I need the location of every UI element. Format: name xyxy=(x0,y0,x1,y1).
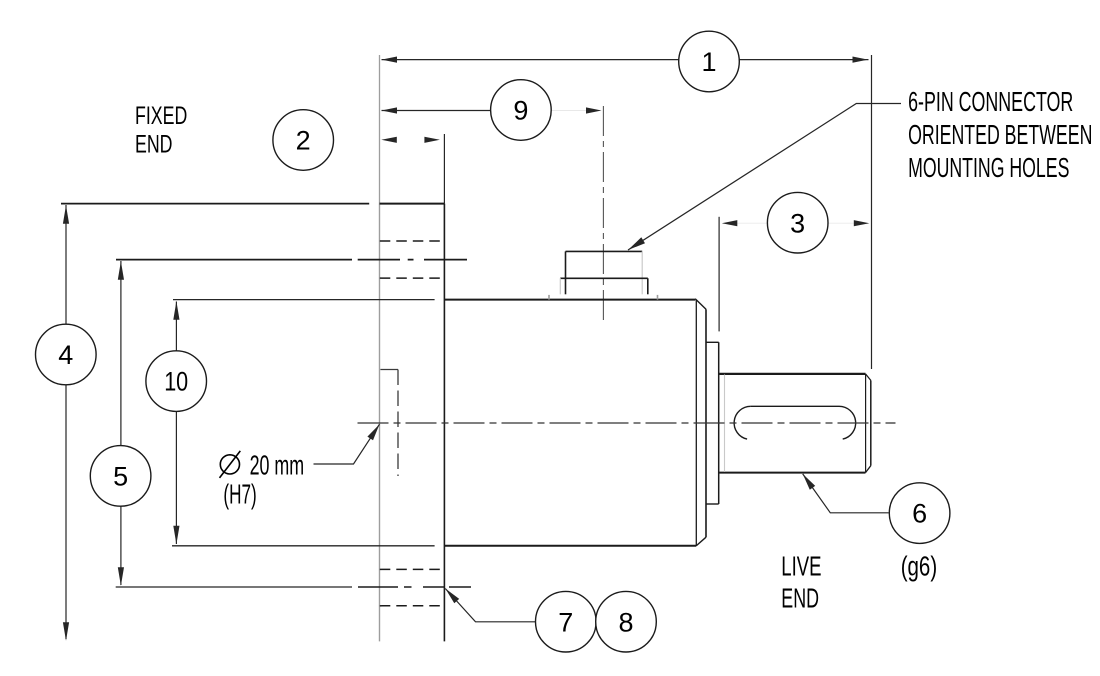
body top edge xyxy=(444,299,695,301)
boss top edge xyxy=(706,341,719,343)
body top extension line (dim 10) xyxy=(173,299,435,301)
dim 9 line left segment xyxy=(382,110,491,112)
balloon 4 xyxy=(36,324,97,385)
dim 1 left arrowhead xyxy=(382,57,398,63)
bore leader arrowhead xyxy=(367,424,379,440)
dim 9 left arrowhead xyxy=(382,107,398,113)
dim 4 line upper segment xyxy=(65,205,67,324)
dim 10 top arrowhead xyxy=(173,301,179,320)
connector lower tier right edge xyxy=(647,278,649,294)
body right face xyxy=(705,309,707,537)
boss right face xyxy=(718,342,720,504)
connector leader arrowhead xyxy=(628,237,645,250)
svg-text:2: 2 xyxy=(296,126,311,156)
svg-text:5: 5 xyxy=(113,462,128,492)
balloon 6 leader arrowhead xyxy=(803,474,816,490)
body bottom extension line (dim 10) xyxy=(172,545,435,547)
svg-text:20 mm: 20 mm xyxy=(250,449,305,480)
dim 4 line lower segment xyxy=(65,385,67,639)
svg-text:END: END xyxy=(135,131,173,159)
connector centerline (vertical dash-dot) xyxy=(602,106,604,323)
svg-text:ORIENTED BETWEEN: ORIENTED BETWEEN xyxy=(908,119,1092,150)
top mounting hole hidden line upper xyxy=(380,240,440,242)
dim 4 bottom arrowhead xyxy=(63,622,69,641)
dim 1 line right segment xyxy=(739,59,868,61)
left extension line for dim 3 xyxy=(718,217,720,332)
dim 9 faint right segment xyxy=(551,110,600,112)
diameter symbol xyxy=(220,451,241,478)
keyway right end arc xyxy=(839,406,856,439)
dim 5 line lower segment xyxy=(120,506,122,586)
svg-text:8: 8 xyxy=(618,607,633,637)
svg-text:7: 7 xyxy=(558,607,573,637)
shaft end top chamfer xyxy=(866,374,871,381)
dim 1 right arrowhead xyxy=(853,57,869,63)
dim 5 top extension line xyxy=(116,259,352,261)
svg-text:LIVE: LIVE xyxy=(781,551,821,582)
dim 5 bottom arrowhead xyxy=(118,567,124,586)
shaft end chamfer ring line xyxy=(865,375,867,472)
connector top tier right edge (light) xyxy=(641,251,643,294)
dim 10 line upper segment xyxy=(175,302,177,352)
bottom mounting hole hidden line upper xyxy=(380,568,440,570)
bottom mounting hole centerline xyxy=(358,586,471,588)
main horizontal centerline xyxy=(358,422,896,424)
balloon 5 xyxy=(90,446,151,507)
svg-text:4: 4 xyxy=(58,340,73,370)
dim 1 line left segment xyxy=(382,59,679,61)
balloon 9 xyxy=(491,80,552,141)
balloon 10 xyxy=(146,351,207,412)
svg-text:(H7): (H7) xyxy=(223,478,256,509)
balloon 6 leader line xyxy=(803,474,889,513)
shaft end face xyxy=(870,380,872,465)
balloon 3 xyxy=(767,192,828,253)
right extension line for dims 1 and 3 xyxy=(871,55,873,369)
dim 3 right arrowhead xyxy=(854,220,870,226)
flange left edge (gray) xyxy=(379,204,381,642)
body bottom edge xyxy=(444,545,696,547)
connector leader line xyxy=(628,104,901,251)
dim 3 faint line xyxy=(723,222,868,224)
shaft bottom edge xyxy=(719,472,865,474)
dim 10 line lower segment xyxy=(175,411,177,544)
connector lower tier left edge (light) xyxy=(559,278,561,294)
flange right edge xyxy=(443,204,445,642)
connector base tick right (light) xyxy=(657,295,659,300)
body right top chamfer xyxy=(695,299,706,309)
boss bottom edge xyxy=(706,503,719,505)
top mounting hole centerline xyxy=(358,259,467,261)
connector base tick left (light) xyxy=(548,295,550,300)
keyway left end arc xyxy=(734,406,751,439)
svg-text:(g6): (g6) xyxy=(901,551,938,582)
flange top edge xyxy=(380,203,445,205)
svg-text:MOUNTING HOLES: MOUNTING HOLES xyxy=(908,152,1069,183)
balloon 7 leader arrowhead xyxy=(445,589,459,604)
connector top tier top edge xyxy=(566,250,643,252)
balloon 1 xyxy=(679,31,740,92)
top mounting hole hidden line lower xyxy=(380,277,440,279)
connector lower tier top edge xyxy=(560,277,648,279)
extension line above flange right face xyxy=(443,134,445,204)
svg-text:3: 3 xyxy=(790,208,805,238)
keyway top edge xyxy=(751,405,839,407)
body chamfer ring line xyxy=(695,300,697,546)
svg-text:6: 6 xyxy=(912,499,927,529)
shaft end bottom chamfer xyxy=(866,466,871,473)
dim 4 top extension line xyxy=(61,203,369,205)
connector top tier left edge xyxy=(565,251,567,294)
pilot bore hidden vertical xyxy=(397,370,399,477)
dim 9 right arrowhead xyxy=(586,107,602,113)
svg-text:1: 1 xyxy=(701,47,716,77)
balloon 2 xyxy=(273,110,334,171)
pilot bore hidden top edge xyxy=(380,369,398,371)
balloon 7 xyxy=(536,591,597,652)
dim 4 top arrowhead xyxy=(63,205,69,224)
bore leader line xyxy=(314,424,380,464)
dim 5 top arrowhead xyxy=(118,261,124,280)
svg-text:6-PIN CONNECTOR: 6-PIN CONNECTOR xyxy=(908,86,1073,117)
extension line from flange left face up to dim 1 xyxy=(379,55,381,204)
dim 5 line upper segment xyxy=(120,261,122,446)
dim 2 right arrowhead xyxy=(424,137,440,143)
svg-text:END: END xyxy=(781,582,819,613)
dim 3 left arrowhead xyxy=(722,220,738,226)
dim 2 left arrowhead xyxy=(381,137,397,143)
shaft top edge xyxy=(719,373,865,375)
body right bottom chamfer xyxy=(696,537,706,546)
dim 10 bottom arrowhead xyxy=(173,526,179,545)
bottom mounting hole hidden line lower xyxy=(380,605,440,607)
svg-text:FIXED: FIXED xyxy=(135,102,187,130)
balloon 6 xyxy=(889,483,950,544)
balloon 7 leader line xyxy=(445,589,535,622)
balloon 8 xyxy=(596,591,657,652)
svg-text:9: 9 xyxy=(513,96,528,126)
dim 5 bottom extension line xyxy=(116,586,352,588)
svg-text:10: 10 xyxy=(164,367,188,397)
shaft left chamfer line (light) xyxy=(724,375,726,472)
